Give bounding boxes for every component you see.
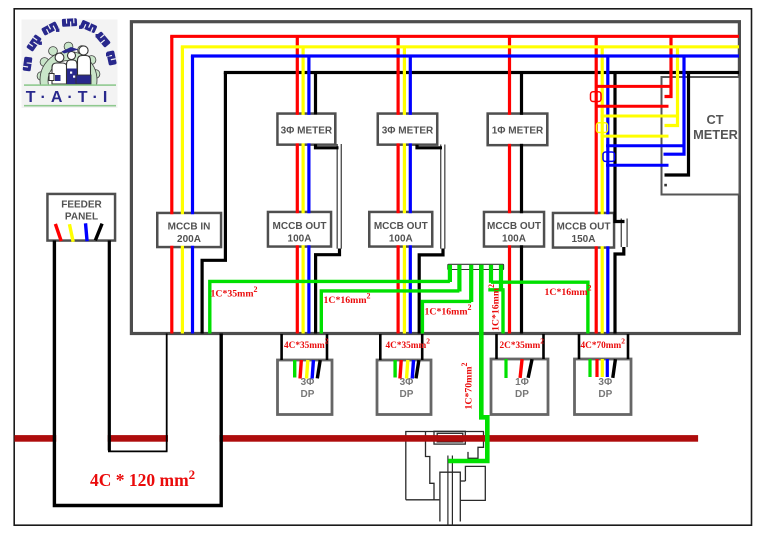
wire: blue CT secondary upper	[606, 144, 686, 147]
wire: blue bus	[191, 54, 739, 57]
black wires	[202, 73, 688, 334]
wire: DP4 neck	[579, 334, 628, 359]
3-phase meter 1 box border	[278, 114, 336, 145]
wire: yellow feed into CT meter	[665, 47, 678, 126]
TATI logo	[22, 18, 118, 111]
wire: yellow CT secondary lower	[601, 135, 669, 138]
DP3 cable stubs	[504, 359, 533, 378]
wire: DP3 neck	[497, 334, 544, 359]
wire: blue drop meter 1 column	[307, 56, 310, 334]
svg-text:T·A·T·I: T·A·T·I	[26, 89, 113, 106]
1-phase meter box border	[488, 114, 548, 146]
wire: blue drop MCCB OUT 150A column	[606, 56, 609, 334]
MCCB OUT 150A fill and text	[554, 214, 612, 246]
svg-text:MCCB OUT: MCCB OUT	[487, 221, 541, 232]
wire: yellow drop meter 2 column	[403, 47, 406, 334]
current transformer on blue phase	[603, 152, 615, 161]
wire: red drop meter 1 column	[296, 36, 299, 333]
dark red service line	[15, 435, 699, 442]
feeder panel fill and text	[49, 195, 114, 242]
MCCB OUT 100A box 1 border	[268, 212, 331, 247]
feeder panel box border	[48, 194, 116, 241]
wire: meter 2 bottom stub to channel 2	[417, 145, 442, 148]
svg-text:1Φ METER: 1Φ METER	[492, 125, 544, 136]
MCCB OUT 100A box 1 fill and text	[269, 213, 329, 245]
svg-text:FEEDER: FEEDER	[61, 200, 102, 211]
wire: red drop meter 2 column	[397, 36, 400, 333]
wire: red CT secondary lower	[595, 105, 669, 108]
svg-text:3Φ: 3Φ	[400, 377, 414, 388]
svg-text:3Φ METER: 3Φ METER	[382, 125, 434, 136]
wire: neutral drop through 1-phase meter column	[520, 73, 523, 334]
wire: yellow bus	[181, 45, 739, 48]
earth pit structure	[406, 431, 486, 525]
wire: earth tooth 1 to MCCB IN column	[210, 281, 450, 333]
CT meter box	[662, 77, 740, 195]
DP1 cable stubs	[293, 360, 322, 379]
svg-text:4C * 120 mm2: 4C * 120 mm2	[90, 467, 195, 490]
svg-text:MCCB IN: MCCB IN	[168, 222, 211, 233]
wire: earth tooth 6 to DP3 column	[488, 290, 504, 334]
wire: red drop MCCB OUT 150A column	[595, 36, 598, 333]
svg-text:3Φ: 3Φ	[598, 377, 612, 388]
wire: DP2 neck	[380, 334, 422, 360]
distribution panel DP1 box	[278, 360, 333, 415]
wire: yellow drop MCCB OUT 150A column	[601, 47, 604, 334]
wire: blue CT secondary lower	[606, 164, 669, 167]
wire: red CT secondary upper	[595, 85, 672, 88]
wire: inner feeder cable run	[108, 241, 111, 451]
svg-text:METER: METER	[693, 127, 738, 142]
white gap in service line under right cable arm	[168, 435, 219, 443]
cable channel beside MCCB OUT 150A	[621, 219, 628, 248]
MCCB OUT 100A box 2 fill and text	[371, 213, 431, 245]
wire: red drop MCCB IN column	[170, 36, 173, 333]
svg-text:MCCB OUT: MCCB OUT	[557, 222, 611, 233]
wire: earth tooth 2 to DP1 column	[321, 291, 459, 334]
wire: black drop from bus into meter 1	[314, 73, 317, 115]
svg-text:DP: DP	[301, 389, 315, 400]
svg-text:1Φ: 1Φ	[515, 377, 529, 388]
yellow phase verticals	[182, 47, 677, 334]
svg-text:100A: 100A	[288, 234, 312, 245]
wire: yellow drop meter 1 column	[302, 47, 305, 334]
svg-text:3Φ: 3Φ	[301, 377, 315, 388]
wire: blue drop MCCB IN column	[191, 56, 194, 334]
wire: yellow CT secondary upper	[601, 115, 680, 118]
wire: earth tooth 5 to DP4 column	[491, 282, 588, 333]
earth bar teeth	[448, 265, 503, 302]
node: terminal dot in CT meter	[664, 184, 667, 187]
wire: channel 3 bottom elbow to neutral lower run	[615, 247, 624, 334]
svg-text:DP: DP	[515, 389, 529, 400]
svg-text:MCCB OUT: MCCB OUT	[374, 221, 428, 232]
wire: channel 1 bottom elbow down to panel bottom	[316, 249, 340, 334]
earth bus bar	[448, 264, 504, 269]
wire: yellow drop MCCB IN column	[181, 47, 184, 334]
wire: earth tooth 4 long drop to earth pit	[448, 265, 487, 461]
3-phase meter 2 fill and text	[379, 115, 436, 143]
main panel enclosure	[131, 22, 739, 334]
wire: channel 2 bottom elbow down to panel bottom	[419, 249, 443, 334]
current transformer on red phase	[591, 92, 602, 102]
distribution panel DP4 box	[575, 359, 632, 415]
MCCB OUT 100A box 3 border	[484, 212, 544, 247]
wire: outer feeder cable run	[54, 241, 221, 506]
wire: neutral drop beside MCCB OUT 150A upper	[615, 73, 625, 222]
wire: black feed from bus into CT meter	[665, 73, 689, 176]
CT secondary wires blue	[606, 146, 686, 165]
MCCB OUT 150A box border	[553, 213, 614, 248]
DP4 cable stubs	[588, 359, 617, 378]
DP necks	[282, 334, 628, 360]
wire: black neutral bus	[224, 71, 739, 74]
svg-text:MCCB OUT: MCCB OUT	[273, 221, 327, 232]
distribution panel DP3 box	[491, 359, 548, 415]
wire: earth tooth 3 to DP2 column	[422, 301, 471, 333]
svg-text:100A: 100A	[389, 234, 413, 245]
wire: blue feed into CT meter	[664, 56, 685, 154]
wire: blue drop meter 2 column	[409, 56, 412, 334]
svg-text:200A: 200A	[177, 234, 201, 245]
DP2 cable stubs	[393, 360, 420, 379]
wire: red bus	[170, 35, 739, 38]
MCCB IN 200A fill and text	[159, 214, 220, 245]
green earth wires	[210, 281, 588, 333]
svg-text:PANEL: PANEL	[65, 212, 98, 223]
svg-text:CT: CT	[706, 112, 723, 127]
cable channel under meter 2	[440, 145, 446, 249]
svg-text:100A: 100A	[502, 234, 526, 245]
red phase verticals	[172, 36, 671, 333]
distribution panel DP2 box	[377, 360, 431, 415]
wire: black bus corner drop and elbow left of MCCB IN	[202, 73, 225, 334]
CT secondary wires yellow	[601, 116, 680, 136]
current transformer on yellow phase	[597, 123, 608, 133]
svg-text:DP: DP	[400, 389, 414, 400]
3-phase meter 1 fill and text	[279, 115, 334, 143]
svg-text:3Φ METER: 3Φ METER	[281, 125, 333, 136]
blue phase verticals	[193, 56, 685, 334]
wire: red drop 1-phase meter column	[508, 36, 511, 333]
1-phase meter fill and text	[489, 115, 546, 144]
svg-text:150A: 150A	[572, 234, 596, 245]
MCCB OUT 100A box 3 fill and text	[485, 213, 542, 245]
wire: DP1 neck	[282, 334, 327, 360]
CT secondary wires red	[595, 86, 672, 106]
cable channel under meter 1	[337, 144, 343, 249]
wire: meter 1 bottom stub to channel 1	[316, 144, 339, 148]
MCCB IN 200A box border	[157, 213, 221, 247]
wire: red feed into CT meter	[665, 36, 672, 96]
3-phase meter 2 box border	[378, 114, 437, 145]
white gap in service line under left cable arm	[56, 435, 107, 443]
svg-text:DP: DP	[598, 389, 612, 400]
MCCB OUT 100A box 2 border	[369, 212, 432, 247]
feeder cable U loop	[54, 241, 221, 506]
